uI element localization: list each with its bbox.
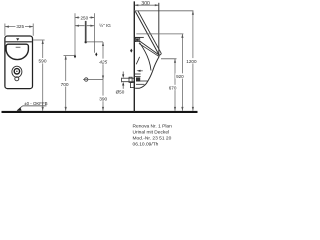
side view bolt <box>130 49 132 53</box>
svg-text:±0 - OKFFB: ±0 - OKFFB <box>24 101 47 106</box>
flush connector block <box>135 38 139 42</box>
dimension 1200 <box>192 11 194 111</box>
svg-text:325: 325 <box>16 24 24 29</box>
top line / 1200 extension <box>134 10 193 12</box>
svg-text:Urinal mit Deckel: Urinal mit Deckel <box>133 129 170 135</box>
wall flange <box>129 77 132 82</box>
svg-text:½" IG: ½" IG <box>99 22 111 28</box>
bowl inner front curve <box>140 43 152 71</box>
front view outlet ring <box>14 69 19 74</box>
svg-text:425: 425 <box>99 59 107 65</box>
svg-text:300: 300 <box>141 1 150 7</box>
dimension 250 extension lines <box>74 13 76 55</box>
dimension 590 <box>33 39 45 41</box>
bowl inner back curve <box>136 57 139 65</box>
wall bolt right <box>95 52 97 56</box>
dimension 670 <box>174 59 176 111</box>
dimension 700 <box>64 55 75 57</box>
svg-text:590: 590 <box>38 59 46 65</box>
front view bowl rim <box>6 44 28 59</box>
dimension 390 <box>102 80 104 111</box>
front view small hole below <box>15 77 19 81</box>
wall bolt left <box>74 54 76 58</box>
open lid double line <box>135 11 159 55</box>
floor line <box>2 111 198 113</box>
diameter 50 upper arrow <box>122 72 124 75</box>
open lid front edge vertical <box>158 3 160 56</box>
ceramic top line <box>134 36 144 38</box>
svg-text:Ø50: Ø50 <box>116 89 125 94</box>
front view body <box>5 36 33 89</box>
dimension 325 <box>5 24 33 36</box>
920 extension line <box>136 33 183 35</box>
svg-text:Renova Nr. 1 Plan: Renova Nr. 1 Plan <box>133 123 173 129</box>
svg-text:390: 390 <box>99 96 107 102</box>
svg-text:670: 670 <box>169 86 177 91</box>
diameter 50 lower arrow leader <box>122 82 124 86</box>
dimension 250 <box>75 17 94 19</box>
dimension 920 <box>181 34 183 111</box>
drain elbow behind wall <box>130 83 134 88</box>
outlet center mark <box>85 78 88 81</box>
svg-text:06.10.09/Th: 06.10.09/Th <box>133 142 159 148</box>
outlet inner box <box>136 77 140 81</box>
svg-text:700: 700 <box>61 82 69 88</box>
flush water supply pipe <box>85 21 87 42</box>
bowl bottom shelf <box>136 83 144 85</box>
front view lid lower edge <box>6 41 32 43</box>
dimension 425 <box>102 42 104 80</box>
front view lid knob notch <box>16 38 19 41</box>
outlet stub lines into bowl <box>134 73 140 75</box>
outlet arrow inside bowl <box>137 70 141 72</box>
dimension 670 extension <box>161 58 177 60</box>
svg-text:1200: 1200 <box>186 59 197 64</box>
closed lid double line to hinge <box>140 41 159 54</box>
water connection arrow line <box>75 25 85 27</box>
side view wall line <box>133 1 135 112</box>
svg-text:Mod.-Nr. 23 51 20: Mod.-Nr. 23 51 20 <box>133 136 172 142</box>
front view outlet escutcheon oval <box>12 66 22 77</box>
dimension 300 <box>133 1 135 10</box>
outlet stub pipe through wall <box>122 77 135 79</box>
svg-text:250: 250 <box>80 15 88 20</box>
bowl inlet slot <box>16 46 21 48</box>
lid hinge cap <box>159 54 161 56</box>
bowl outer front curve <box>135 56 159 88</box>
svg-text:920: 920 <box>176 74 184 79</box>
